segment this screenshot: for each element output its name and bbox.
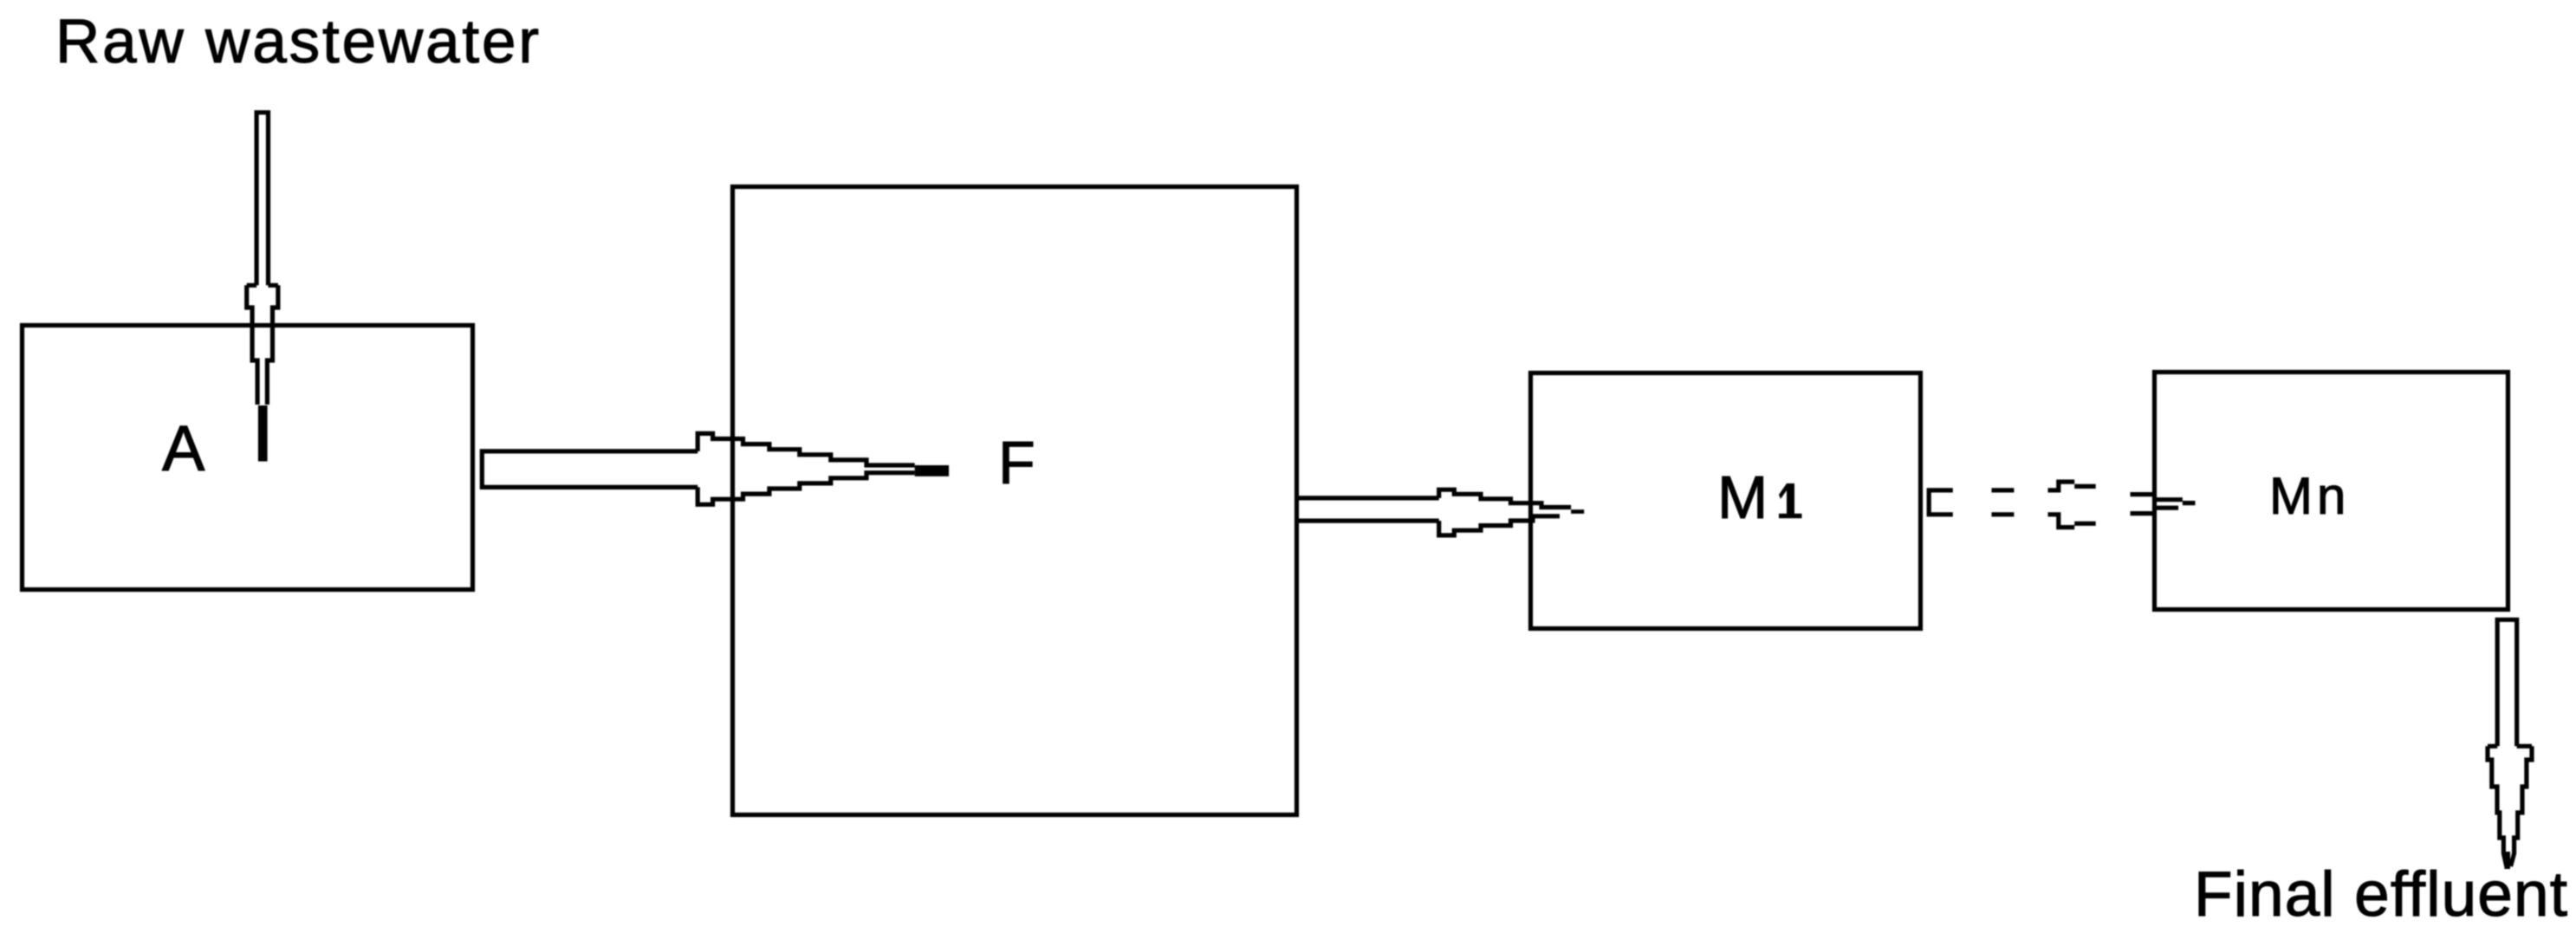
- svg-text:F: F: [998, 429, 1035, 496]
- dashed arrow : tail dashes: [1992, 490, 2015, 515]
- svg-text:Raw wastewater: Raw wastewater: [55, 8, 539, 76]
- box M1: [1531, 373, 1921, 629]
- svg-text:Mn: Mn: [2269, 467, 2350, 525]
- svg-text:M: M: [1717, 463, 1768, 531]
- box A: [23, 326, 473, 590]
- arrow F to M1 : solid tip: [1571, 509, 1584, 514]
- dashed arrow : shoulder dashes: [2048, 482, 2096, 528]
- dashed arrow M1 to Mn : tail cap: [1929, 490, 1953, 515]
- label M1 : digit 1 drawn with foot serif: [1779, 483, 1802, 518]
- arrow F to M1: [1296, 489, 1571, 535]
- arrow Mn down : solid tip: [2504, 852, 2510, 869]
- dashed arrow : tip inside Mn: [2157, 500, 2196, 509]
- svg-text:Final effluent: Final effluent: [2194, 859, 2567, 927]
- arrow A to F : solid tip: [915, 465, 949, 476]
- arrow A to F: [482, 433, 914, 504]
- svg-text:A: A: [162, 412, 205, 484]
- arrow Mn down to final effluent: [2488, 618, 2532, 866]
- box Mn: [2155, 373, 2508, 610]
- arrow into A : solid tip: [258, 405, 268, 462]
- dashed arrow : taper dashes: [2131, 495, 2153, 514]
- arrow raw wastewater into A: [247, 110, 278, 405]
- box F: [733, 187, 1297, 815]
